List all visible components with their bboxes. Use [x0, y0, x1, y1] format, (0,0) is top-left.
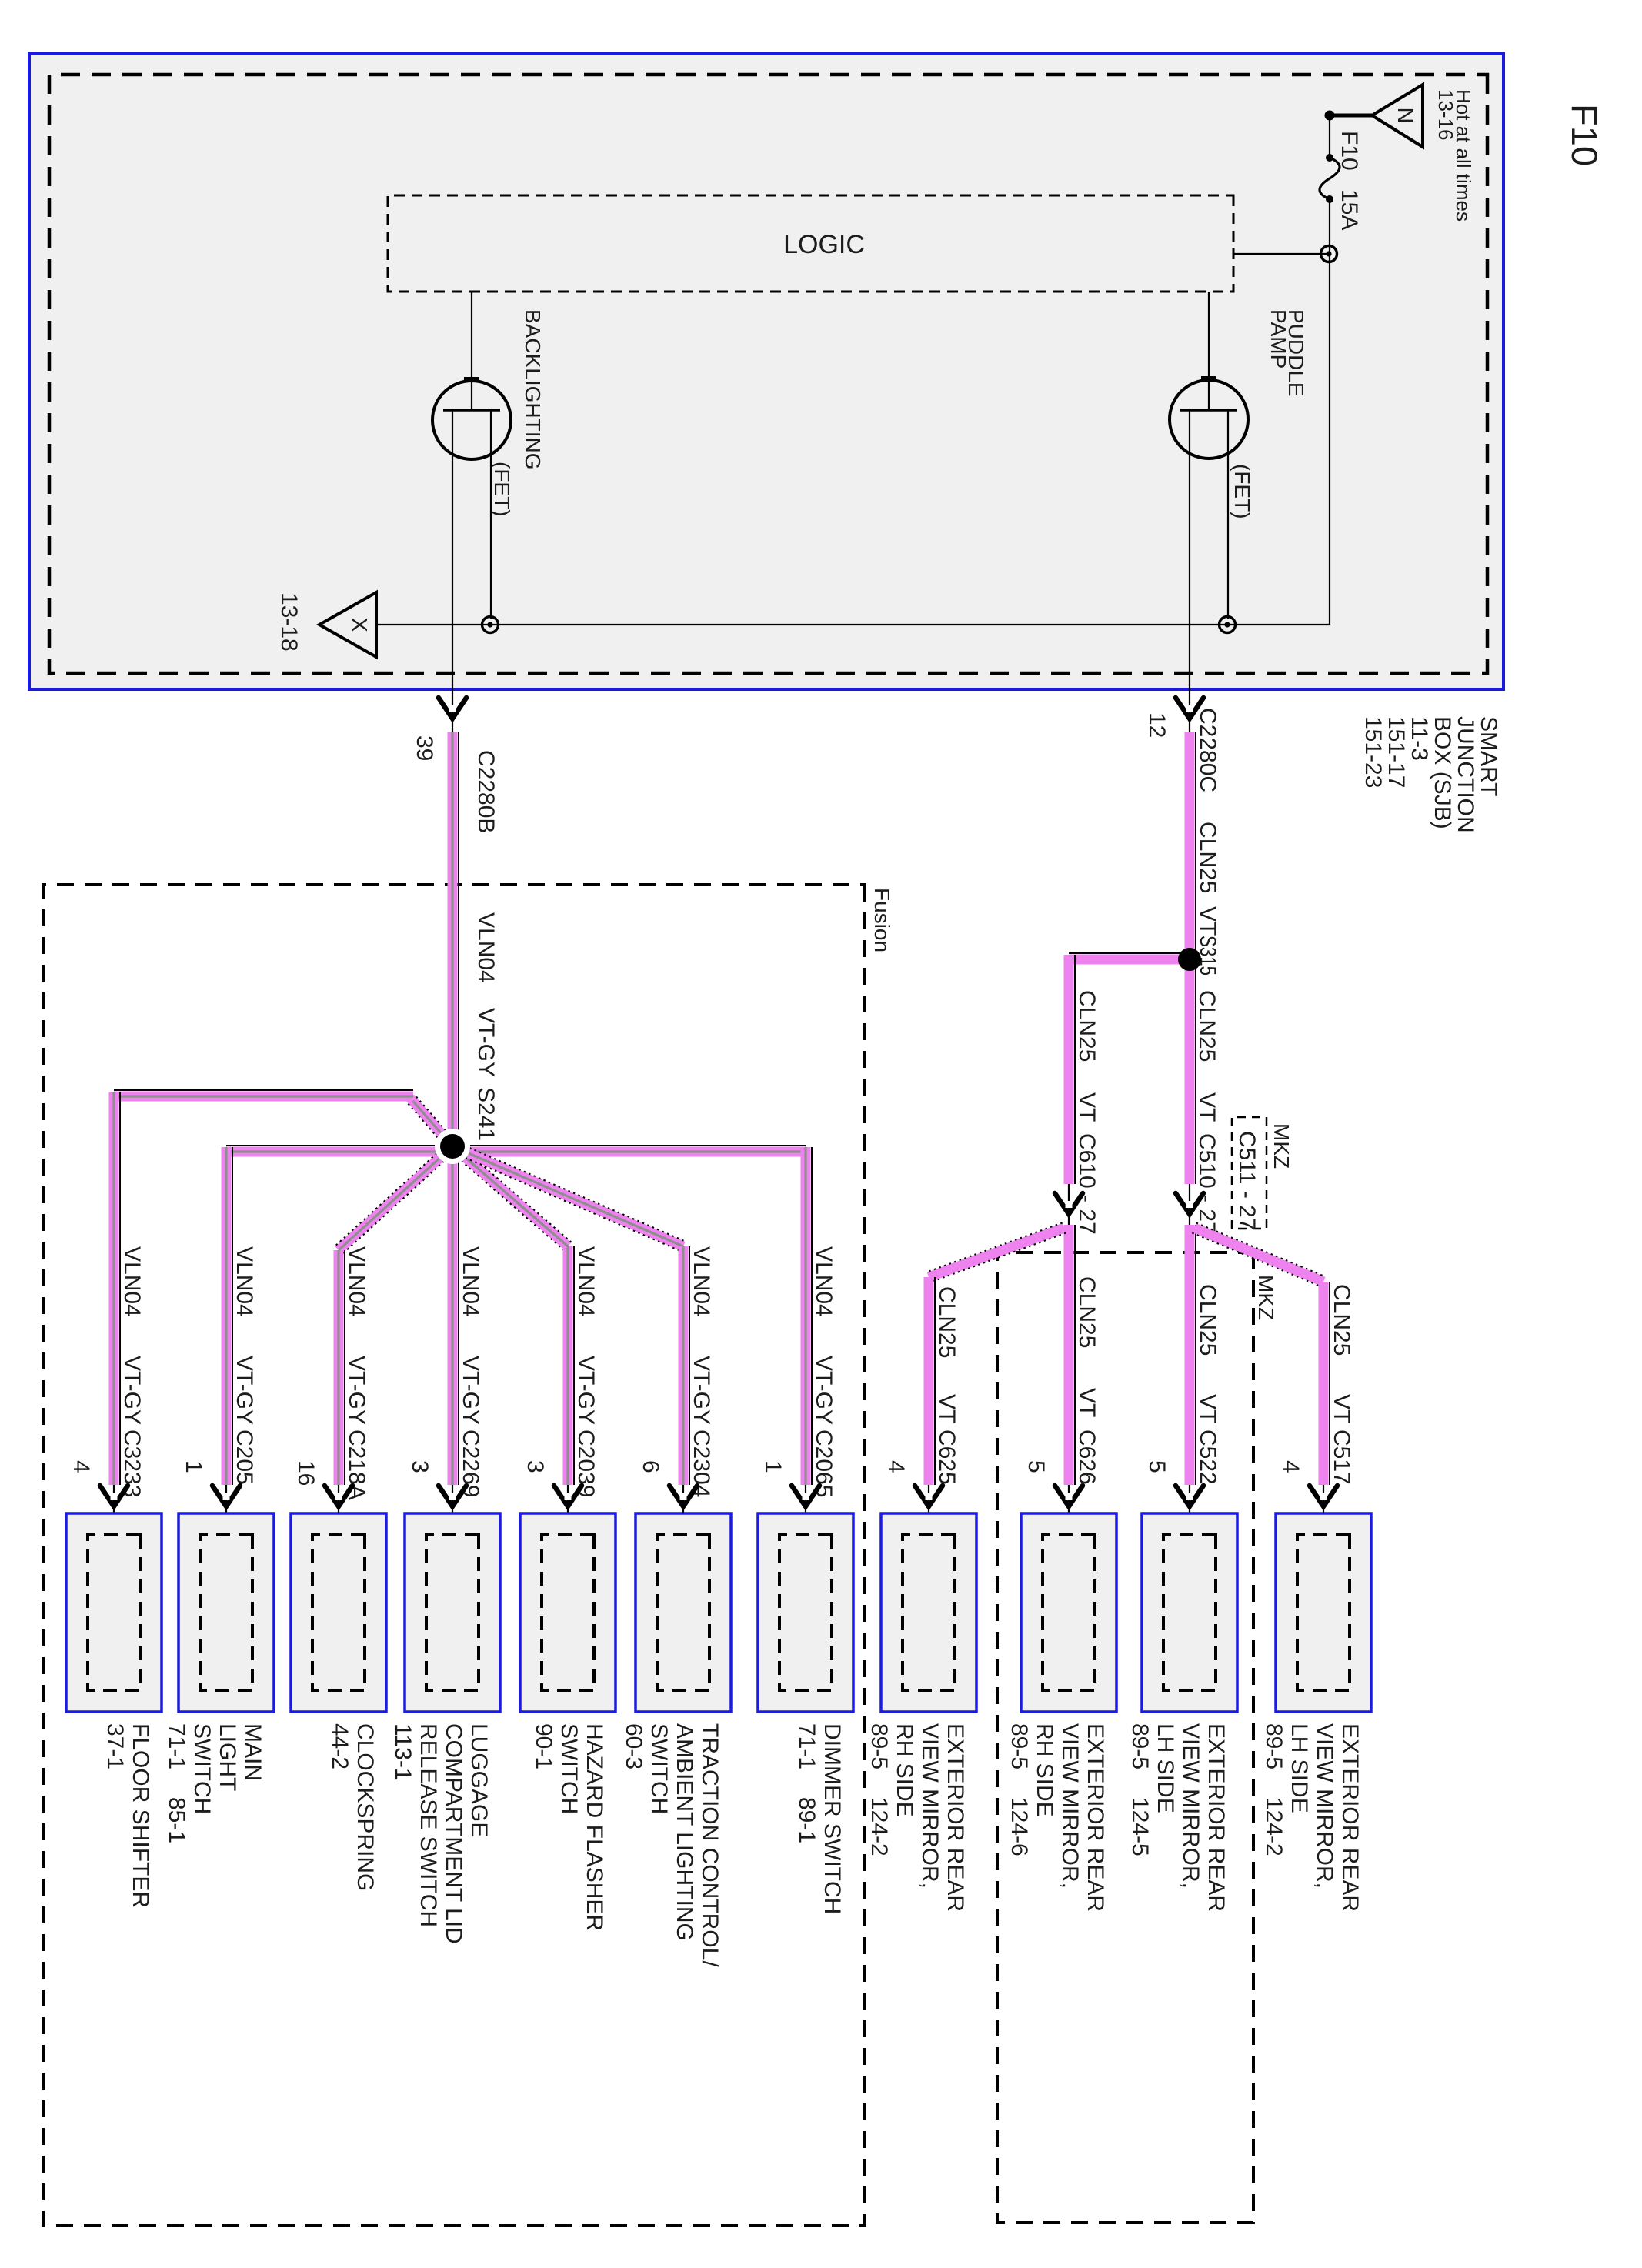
- svg-text:VT: VT: [934, 1394, 960, 1423]
- svg-text:4: 4: [1278, 1460, 1303, 1473]
- wire FET2 drain to connector C2280C: [1189, 410, 1190, 732]
- svg-text:BOX (SJB): BOX (SJB): [1430, 716, 1455, 829]
- connector arrow C2039: [554, 1486, 582, 1506]
- wire vertical branch to C3233: [114, 1090, 413, 1102]
- wire FET1 gate from LOGIC: [471, 292, 472, 410]
- svg-text:RH SIDE: RH SIDE: [892, 1723, 917, 1817]
- svg-text:4: 4: [68, 1460, 94, 1473]
- svg-text:VT: VT: [1194, 1092, 1220, 1122]
- svg-text:6: 6: [638, 1460, 663, 1473]
- wire CLN25 VT to connector C610: [1064, 955, 1076, 1184]
- svg-text:COMPARTMENT LID: COMPARTMENT LID: [441, 1723, 466, 1944]
- wire stub into clockspring: [338, 1485, 339, 1535]
- svg-text:EXTERIOR REAR: EXTERIOR REAR: [1083, 1723, 1108, 1912]
- svg-text:X: X: [346, 617, 371, 632]
- wire FET2 source to bus: [1227, 410, 1229, 619]
- svg-text:VLN04: VLN04: [232, 1246, 257, 1317]
- power feed triangle N: [1372, 85, 1423, 147]
- svg-text:VT-GY: VT-GY: [232, 1356, 257, 1425]
- svg-text:AMBIENT LIGHTING: AMBIENT LIGHTING: [672, 1723, 697, 1941]
- svg-text:VT: VT: [1074, 1092, 1100, 1122]
- svg-text:89-5: 89-5: [1261, 1723, 1287, 1769]
- svg-text:11-3: 11-3: [1407, 716, 1432, 761]
- splice S315: [1178, 948, 1201, 971]
- svg-text:MKZ: MKZ: [1270, 1123, 1293, 1169]
- label hazard flasher switch: [531, 1723, 607, 1931]
- component box exterior rear view mirror LH: [1142, 1513, 1237, 1712]
- connector arrow C522: [1176, 1486, 1203, 1506]
- svg-text:VIEW MIRROR,: VIEW MIRROR,: [1178, 1723, 1203, 1889]
- svg-text:3: 3: [407, 1460, 432, 1473]
- svg-text:39: 39: [412, 735, 437, 761]
- svg-text:VT-GY: VT-GY: [458, 1356, 483, 1425]
- svg-text:C3233: C3233: [119, 1429, 145, 1497]
- label exterior rear view mirror LH 2: [1261, 1723, 1363, 1912]
- svg-text:C510 - 27: C510 - 27: [1194, 1133, 1220, 1235]
- svg-text:VT: VT: [1074, 1388, 1100, 1417]
- svg-text:RELEASE SWITCH: RELEASE SWITCH: [416, 1723, 441, 1927]
- LOGIC box: [388, 195, 1233, 292]
- svg-text:44-2: 44-2: [327, 1723, 352, 1769]
- svg-text:FLOOR SHIFTER: FLOOR SHIFTER: [128, 1723, 153, 1908]
- component box exterior rear view mirror RH 2: [1021, 1513, 1116, 1712]
- svg-text:C511 - 27: C511 - 27: [1234, 1131, 1260, 1231]
- connector C610 arrow: [1055, 1193, 1083, 1214]
- label traction control/ambient lighting switch: [621, 1723, 723, 1967]
- svg-text:(FET): (FET): [490, 462, 514, 517]
- label luggage compartment lid release switch: [390, 1723, 492, 1944]
- svg-text:VT-GY: VT-GY: [473, 1008, 499, 1077]
- svg-text:JUNCTION: JUNCTION: [1453, 716, 1478, 833]
- svg-text:LH SIDE: LH SIDE: [1287, 1723, 1312, 1813]
- svg-text:124-2: 124-2: [1261, 1797, 1287, 1856]
- wire diagonal branch toward C3233: [406, 1094, 457, 1149]
- svg-text:C205: C205: [232, 1429, 257, 1485]
- wire diagonal branch toward C2039: [449, 1142, 571, 1251]
- wire S315 branch down: [1069, 953, 1194, 965]
- connector arrow C2304: [669, 1486, 697, 1506]
- svg-text:VIEW MIRROR,: VIEW MIRROR,: [917, 1723, 943, 1889]
- wire stub into traction control/ambient lighting switch: [682, 1485, 684, 1535]
- svg-text:13-18: 13-18: [276, 592, 302, 652]
- wire fuse to bus corner: [1329, 199, 1330, 625]
- wire stub into hazard flasher switch: [567, 1485, 569, 1535]
- svg-text:VLN04: VLN04: [344, 1246, 369, 1317]
- connector arrow C3233: [100, 1486, 128, 1506]
- wire diagonal branch toward C517: [1192, 1223, 1325, 1287]
- wire CLN25 VT to C522: [1185, 1225, 1196, 1485]
- svg-text:LOGIC: LOGIC: [783, 230, 865, 259]
- wire S241 vertical branch (to C2065 and C205): [226, 1146, 806, 1157]
- wire VLN04 VT-GY from C2280B to splice S241: [448, 732, 459, 1146]
- svg-text:C2269: C2269: [458, 1429, 483, 1497]
- label clockspring: [327, 1723, 378, 1891]
- svg-text:4: 4: [883, 1460, 909, 1473]
- svg-text:VT: VT: [1195, 906, 1220, 936]
- svg-text:15A: 15A: [1337, 189, 1362, 230]
- connector arrow C205: [212, 1486, 240, 1506]
- svg-text:(FET): (FET): [1230, 464, 1254, 519]
- wire FET1 drain to connector C2280B: [452, 410, 453, 732]
- svg-text:CLN25: CLN25: [1074, 1276, 1100, 1348]
- power bus vertical: [376, 624, 1330, 625]
- wire tap down to LOGIC: [1233, 253, 1329, 255]
- svg-text:CLN25: CLN25: [1329, 1284, 1354, 1356]
- svg-text:F10: F10: [1564, 104, 1605, 166]
- inline connector C510-27: [1189, 1184, 1190, 1225]
- SJB box (Smart Junction Box): [29, 54, 1503, 689]
- svg-text:CLN25: CLN25: [1195, 822, 1220, 893]
- svg-text:F10: F10: [1337, 131, 1362, 171]
- svg-text:VLN04: VLN04: [473, 912, 499, 983]
- label exterior rear view mirror RH 2: [1006, 1723, 1108, 1912]
- svg-text:C2304: C2304: [689, 1429, 714, 1497]
- svg-text:13-16: 13-16: [1434, 89, 1457, 141]
- svg-text:LIGHT: LIGHT: [215, 1723, 240, 1791]
- svg-text:5: 5: [1023, 1460, 1049, 1473]
- wire dot to fuse: [1329, 115, 1330, 158]
- wire stub into main light switch: [225, 1485, 227, 1535]
- svg-text:VT-GY: VT-GY: [119, 1356, 145, 1425]
- svg-text:VIEW MIRROR,: VIEW MIRROR,: [1312, 1723, 1337, 1889]
- wire stub into luggage compartment lid release switch: [452, 1485, 453, 1535]
- wire branch to C3233 connector: [109, 1092, 121, 1485]
- svg-text:VT-GY: VT-GY: [344, 1356, 369, 1425]
- wire branch to C2039 connector: [563, 1246, 575, 1485]
- svg-text:VT-GY: VT-GY: [573, 1356, 599, 1425]
- wire stub into exterior rear view mirror RH 2: [1068, 1485, 1070, 1535]
- svg-text:CLN25: CLN25: [1074, 990, 1100, 1062]
- svg-text:MAIN: MAIN: [240, 1723, 265, 1781]
- svg-text:37-1: 37-1: [102, 1723, 128, 1769]
- svg-text:LH SIDE: LH SIDE: [1153, 1723, 1178, 1813]
- wire FET1 source to bus: [490, 410, 492, 619]
- wire branch to C2304 connector: [679, 1246, 690, 1485]
- component box luggage compartment lid release switch: [405, 1513, 500, 1712]
- svg-text:PAMP: PAMP: [1267, 309, 1290, 369]
- svg-text:VLN04: VLN04: [119, 1246, 145, 1317]
- svg-text:CLOCKSPRING: CLOCKSPRING: [352, 1723, 378, 1891]
- svg-text:VT-GY: VT-GY: [811, 1356, 836, 1425]
- wire triangle N to power line: [1330, 114, 1372, 118]
- svg-text:124-5: 124-5: [1127, 1797, 1153, 1856]
- connector arrow C2269: [439, 1486, 466, 1506]
- svg-text:C2280C: C2280C: [1195, 708, 1220, 792]
- svg-text:C610 - 27: C610 - 27: [1074, 1133, 1100, 1235]
- svg-text:124-2: 124-2: [866, 1797, 892, 1856]
- junction ring to LOGIC: [1321, 246, 1337, 262]
- MKZ vehicle dashed box: [997, 1252, 1253, 2223]
- svg-text:EXTERIOR REAR: EXTERIOR REAR: [943, 1723, 968, 1912]
- svg-text:90-1: 90-1: [531, 1723, 556, 1769]
- svg-text:12: 12: [1144, 712, 1170, 738]
- svg-text:VT-GY: VT-GY: [689, 1356, 714, 1425]
- svg-text:60-3: 60-3: [621, 1723, 646, 1769]
- connector arrow C625: [915, 1486, 943, 1506]
- wire CLN25 VT S315 to connector C510: [1185, 959, 1196, 1184]
- wire S241 straight branch to C2269: [448, 1146, 459, 1485]
- svg-text:EXTERIOR REAR: EXTERIOR REAR: [1337, 1723, 1363, 1912]
- svg-text:EXTERIOR REAR: EXTERIOR REAR: [1203, 1723, 1229, 1912]
- svg-text:SMART: SMART: [1476, 716, 1501, 796]
- svg-text:3: 3: [522, 1460, 548, 1473]
- wire branch to C205 connector: [222, 1147, 233, 1485]
- svg-text:85-1: 85-1: [164, 1797, 189, 1843]
- svg-text:VLN04: VLN04: [458, 1246, 483, 1317]
- wire CLN25 VT to C626: [1064, 1225, 1076, 1485]
- svg-text:TRACTION CONTROL/: TRACTION CONTROL/: [697, 1723, 723, 1967]
- svg-text:C2280B: C2280B: [473, 750, 499, 833]
- connector C510 arrow: [1176, 1193, 1203, 1214]
- label exterior rear view mirror RH: [866, 1723, 968, 1912]
- Fusion vehicle dashed box: [43, 885, 865, 2226]
- wire stub into dimmer switch: [805, 1485, 806, 1535]
- connector arrow C626: [1055, 1486, 1083, 1506]
- svg-text:MKZ: MKZ: [1254, 1275, 1278, 1320]
- component box main light switch: [179, 1513, 274, 1712]
- component box traction control/ambient lighting switch: [636, 1513, 731, 1712]
- wire branch to C218A connector: [334, 1250, 345, 1485]
- svg-text:124-6: 124-6: [1006, 1797, 1032, 1856]
- svg-text:BACKLIGHTING: BACKLIGHTING: [521, 309, 545, 469]
- svg-text:LUGGAGE: LUGGAGE: [466, 1723, 492, 1837]
- wire CLN25 VT to C517: [1319, 1282, 1330, 1485]
- wire stub into exterior rear view mirror LH 2: [1323, 1485, 1324, 1535]
- wire stub into exterior rear view mirror LH: [1189, 1485, 1190, 1535]
- svg-text:113-1: 113-1: [390, 1723, 416, 1781]
- splice S241: [435, 1129, 470, 1164]
- svg-text:C626: C626: [1074, 1429, 1100, 1485]
- svg-text:89-5: 89-5: [1127, 1723, 1153, 1769]
- svg-text:DIMMER SWITCH: DIMMER SWITCH: [819, 1723, 845, 1914]
- svg-text:VT: VT: [1195, 1394, 1220, 1423]
- fuse F10 15A: [1320, 154, 1340, 203]
- svg-text:89-1: 89-1: [794, 1797, 819, 1843]
- svg-text:5: 5: [1144, 1460, 1170, 1473]
- connector arrow C218A: [325, 1486, 352, 1506]
- svg-text:VT: VT: [1329, 1394, 1354, 1423]
- transistor Q1 backlighting FET: [432, 377, 511, 459]
- transistor Q2 puddle lamp FET: [1170, 376, 1248, 459]
- inline connector C610-27: [1068, 1184, 1070, 1225]
- wire diagonal branch toward C625: [927, 1222, 1066, 1282]
- svg-text:VIEW MIRROR,: VIEW MIRROR,: [1057, 1723, 1083, 1889]
- connector arrow C2065: [792, 1486, 819, 1506]
- svg-text:151-17: 151-17: [1383, 716, 1409, 788]
- wire stub into exterior rear view mirror RH: [928, 1485, 929, 1535]
- svg-text:C517: C517: [1329, 1429, 1354, 1485]
- svg-text:VLN04: VLN04: [811, 1246, 836, 1317]
- junction ring FET1 source: [482, 617, 499, 633]
- svg-text:CLN25: CLN25: [934, 1286, 960, 1358]
- connector box C511 - 27 (MKZ): [1232, 1117, 1267, 1231]
- wire CLN25 VT to C625: [924, 1277, 936, 1485]
- junction ring FET2 source: [1220, 617, 1236, 633]
- connector C2280B pin 39 arrow: [439, 698, 466, 719]
- svg-text:151-23: 151-23: [1360, 716, 1386, 788]
- component box exterior rear view mirror RH: [881, 1513, 976, 1712]
- svg-text:89-5: 89-5: [866, 1723, 892, 1769]
- SJB inner dashed border: [49, 75, 1487, 673]
- svg-text:C522: C522: [1195, 1429, 1220, 1485]
- component box hazard flasher switch: [520, 1513, 616, 1712]
- junction dot at fuse feed: [1325, 111, 1335, 121]
- svg-text:Fusion: Fusion: [870, 888, 894, 952]
- wire FET2 gate from LOGIC: [1208, 292, 1210, 410]
- ground triangle X 13-18: [319, 592, 376, 657]
- svg-text:71-1: 71-1: [794, 1723, 819, 1769]
- svg-text:1: 1: [181, 1460, 206, 1473]
- svg-text:16: 16: [293, 1460, 319, 1486]
- svg-text:RH SIDE: RH SIDE: [1032, 1723, 1057, 1817]
- label exterior rear view mirror LH: [1127, 1723, 1229, 1912]
- svg-text:C2039: C2039: [573, 1429, 599, 1497]
- svg-text:C625: C625: [934, 1429, 960, 1485]
- component box exterior rear view mirror LH 2: [1276, 1513, 1371, 1712]
- svg-text:C2065: C2065: [811, 1429, 836, 1497]
- wire CLN25 VT from C2280C to splice S315: [1185, 732, 1196, 959]
- svg-text:SWITCH: SWITCH: [556, 1723, 582, 1814]
- wire diagonal branch toward C218A: [335, 1142, 456, 1254]
- wire branch to C2065 connector: [801, 1147, 813, 1485]
- label dimmer switch: [794, 1723, 845, 1914]
- svg-text:VLN04: VLN04: [689, 1246, 714, 1317]
- wire diagonal branch toward C2304: [450, 1142, 686, 1252]
- connector arrow C517: [1310, 1486, 1337, 1506]
- svg-text:SWITCH: SWITCH: [189, 1723, 215, 1814]
- svg-text:71-1: 71-1: [164, 1723, 189, 1769]
- svg-text:CLN25: CLN25: [1194, 990, 1220, 1062]
- component box dimmer switch: [758, 1513, 853, 1712]
- svg-text:HAZARD FLASHER: HAZARD FLASHER: [582, 1723, 607, 1931]
- svg-text:N: N: [1393, 108, 1417, 124]
- svg-text:S241: S241: [473, 1087, 499, 1141]
- component box clockspring: [291, 1513, 386, 1712]
- label floor shifter: [102, 1723, 153, 1908]
- svg-text:CLN25: CLN25: [1195, 1284, 1220, 1356]
- svg-text:89-5: 89-5: [1006, 1723, 1032, 1769]
- svg-text:SWITCH: SWITCH: [646, 1723, 672, 1814]
- wire stub into floor shifter: [113, 1485, 115, 1535]
- component box floor shifter: [66, 1513, 162, 1712]
- connector C2280C pin 12 arrow: [1176, 698, 1203, 719]
- svg-text:VLN04: VLN04: [573, 1246, 599, 1317]
- svg-text:1: 1: [760, 1460, 786, 1473]
- label main light switch: [164, 1723, 265, 1843]
